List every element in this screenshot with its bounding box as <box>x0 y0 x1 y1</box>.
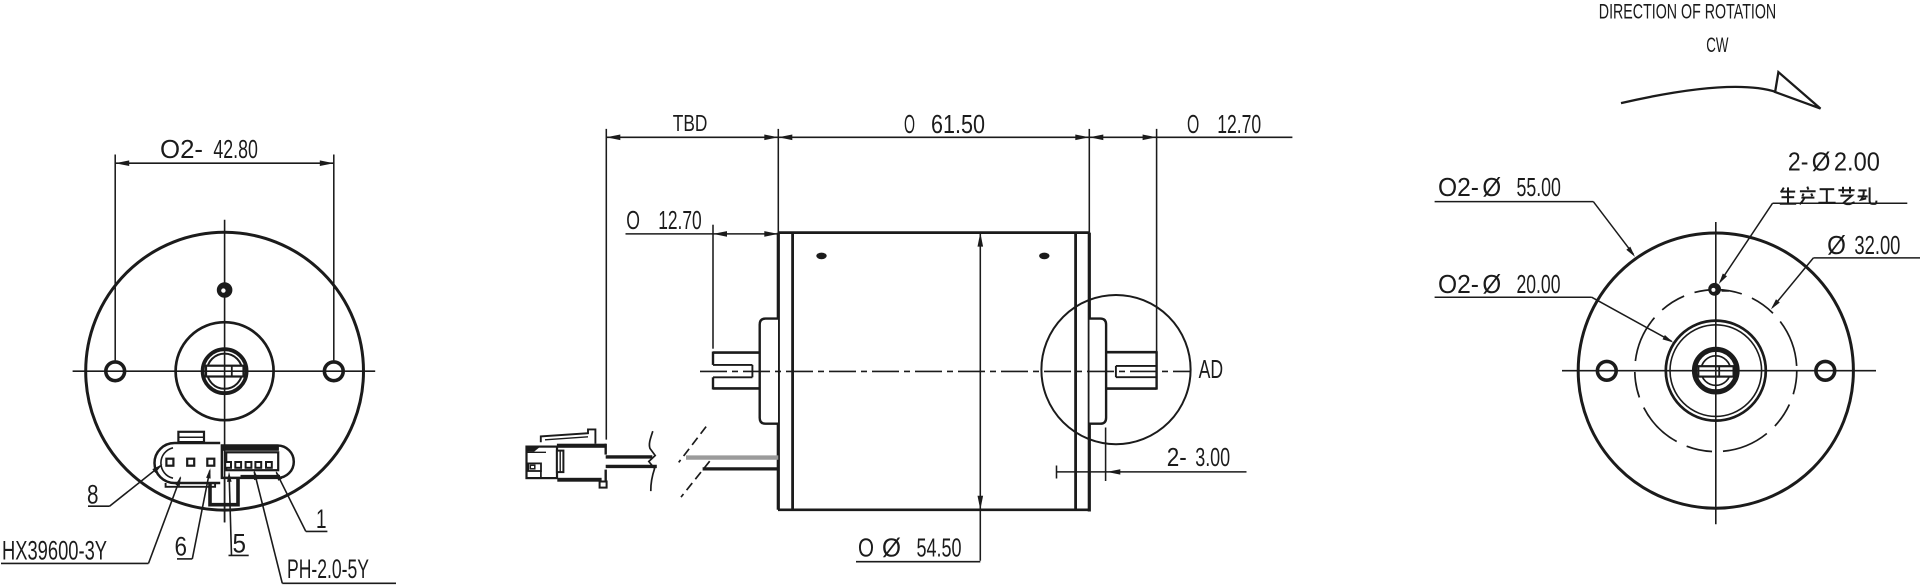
ext line body left <box>777 129 779 233</box>
leader for label 8 <box>88 505 110 507</box>
dim 42.80 extension line left <box>114 155 116 361</box>
motor body top edge <box>778 231 1090 234</box>
left view shaft keyway slot <box>206 366 244 377</box>
leader for PH-2.0-5Y <box>282 582 396 584</box>
left view shaft inner circle <box>207 354 242 389</box>
small plug top inner line <box>527 451 547 453</box>
svg-text:2.00: 2.00 <box>1834 147 1880 177</box>
svg-text:DIRECTION OF ROTATION: DIRECTION OF ROTATION <box>1599 0 1776 24</box>
svg-text:O2-: O2- <box>160 134 203 164</box>
svg-text:2-: 2- <box>1167 442 1187 472</box>
right view mounting hole left <box>1597 361 1616 380</box>
wire gray segment <box>686 455 778 459</box>
housing right edge <box>605 444 607 455</box>
small plug latch wedge <box>527 447 540 452</box>
right view vertical centerline <box>1715 222 1717 524</box>
connector PH pin 1 <box>225 462 231 468</box>
plug latch <box>541 429 596 443</box>
leader for HX39600-3Y <box>1 562 149 564</box>
middle view centerline <box>700 370 1190 372</box>
left view small pilot hole (top) <box>217 282 233 298</box>
left view horizontal centerline <box>73 370 376 372</box>
svg-text:1: 1 <box>316 504 327 534</box>
svg-text:O: O <box>1187 109 1199 139</box>
dim TBD arrows <box>606 135 620 141</box>
svg-text:Ø: Ø <box>1827 230 1846 260</box>
svg-text:5: 5 <box>233 529 247 559</box>
svg-text:61.50: 61.50 <box>931 109 985 139</box>
dim 42.80 arrow right <box>320 160 334 166</box>
left view shaft bearing ring <box>203 349 247 393</box>
left view mounting hole right <box>324 362 343 381</box>
svg-text:O: O <box>904 109 915 139</box>
dim 12.70 arrows <box>1089 135 1103 141</box>
connector HX pin 3 <box>207 459 214 466</box>
connector HX tab <box>178 432 204 442</box>
dim 42.80 arrow left <box>115 160 129 166</box>
connector PH top bar <box>222 445 279 451</box>
break dashed line lower <box>681 461 710 497</box>
connector HX pin 1 <box>166 459 173 466</box>
left end cap face <box>777 233 780 510</box>
connector HX body (3-pin) <box>155 443 221 483</box>
svg-text:Ø: Ø <box>1482 172 1501 202</box>
right view bolt circle (dashed) <box>1635 290 1797 452</box>
svg-text:3.00: 3.00 <box>1195 442 1230 472</box>
connector PH inner housing <box>226 452 278 470</box>
left end cap seam <box>791 233 794 510</box>
break dashed line upper <box>679 427 706 463</box>
connector HX pin 2 <box>187 459 194 466</box>
wire upper <box>606 455 653 458</box>
left view motor outline circle <box>86 232 364 510</box>
connector PH body (5-pin) <box>222 446 294 478</box>
dim 3.00 line <box>1056 471 1247 473</box>
label sheng-chan-gong-yi-kong (Chinese) <box>1781 188 1784 193</box>
leader for label 1 <box>306 530 328 532</box>
leader for label 6 <box>177 558 192 560</box>
svg-text:Ø: Ø <box>1812 147 1831 177</box>
right view mounting hole right <box>1816 361 1835 380</box>
svg-text:20.00: 20.00 <box>1517 269 1561 299</box>
leader 2- dia 2.00 <box>1773 202 1908 204</box>
connector PH pin 5 <box>266 462 272 468</box>
dim 54.50 line <box>979 233 981 561</box>
right view shaft ring <box>1695 349 1738 392</box>
svg-text:6: 6 <box>175 532 188 562</box>
svg-text:54.50: 54.50 <box>917 532 962 562</box>
svg-text:8: 8 <box>87 480 99 510</box>
housing bottom-right square <box>600 482 607 488</box>
leader dia 32 <box>1813 257 1920 259</box>
left shaft outline <box>713 351 760 354</box>
rotation arrow arc <box>1621 87 1776 103</box>
small plug inner line <box>540 471 542 478</box>
process hole <box>1708 283 1721 296</box>
housing bottom bar <box>557 478 601 482</box>
wire lower <box>606 465 657 468</box>
svg-text:O: O <box>626 205 640 235</box>
svg-text:PH-2.0-5Y: PH-2.0-5Y <box>287 554 369 584</box>
ext line TBD left <box>605 129 607 440</box>
left view mounting hole left <box>106 362 125 381</box>
svg-text:Ø: Ø <box>1482 269 1501 299</box>
vent hole left <box>816 253 826 260</box>
wire harness outline <box>210 478 238 505</box>
dim 54.50 underline <box>856 561 980 563</box>
plug collar <box>557 451 564 473</box>
dim 42.80 extension line right <box>333 155 335 361</box>
detail circle AD <box>1041 295 1190 444</box>
right bearing boss <box>1090 319 1107 424</box>
ext line boss right <box>1105 428 1107 482</box>
svg-text:42.80: 42.80 <box>213 134 258 164</box>
left shaft keyway slot <box>713 364 752 366</box>
dim 61.50 arrows <box>778 135 792 141</box>
rotation arrowhead <box>1775 72 1820 109</box>
right view boss circle outer <box>1666 321 1766 421</box>
dim 3.00 arrow <box>1107 469 1121 474</box>
left view centerline over connector <box>224 446 226 523</box>
right view motor outline circle <box>1578 233 1853 508</box>
dim 42.80 dimension line <box>115 162 334 164</box>
connector PH bottom thick edge <box>241 475 281 478</box>
right end cap seam <box>1074 233 1077 510</box>
right shaft keyway slot <box>1116 365 1157 367</box>
svg-text:32.00: 32.00 <box>1854 230 1900 260</box>
svg-text:12.70: 12.70 <box>658 205 702 235</box>
right view horizontal centerline <box>1562 370 1876 372</box>
vent hole right <box>1039 253 1049 260</box>
top dim line <box>606 136 1292 138</box>
leader dia 55 <box>1435 201 1594 203</box>
wire black segment <box>703 467 779 470</box>
svg-text:12.70: 12.70 <box>1217 109 1261 139</box>
svg-text:O: O <box>858 532 874 562</box>
connector PH pin 4 <box>255 462 261 468</box>
dim 12.70 left arrows <box>713 231 727 237</box>
right shaft outline <box>1106 351 1157 354</box>
break zigzag <box>649 431 655 491</box>
small plug inner box <box>528 463 541 471</box>
housing top bar <box>557 444 606 448</box>
ext line left shaft tip <box>712 225 714 349</box>
connector PH pin 2 <box>235 462 241 468</box>
svg-text:O2-: O2- <box>1438 269 1479 299</box>
svg-text:AD: AD <box>1199 354 1224 384</box>
small plug body <box>527 447 558 479</box>
dim 12.70 left shelf <box>626 233 779 235</box>
dim 54.50 arrows <box>978 233 984 247</box>
leader dia 20 <box>1435 296 1592 298</box>
ext line body right <box>1088 129 1090 233</box>
left bearing boss <box>760 319 778 424</box>
svg-text:O2-: O2- <box>1438 172 1479 202</box>
svg-text:TBD: TBD <box>673 110 708 136</box>
svg-text:CW: CW <box>1706 33 1729 57</box>
svg-text:Ø: Ø <box>882 532 901 562</box>
left view vertical centerline <box>224 220 226 523</box>
left view shaft boss circle <box>176 322 274 420</box>
right view shaft inner circle <box>1701 356 1731 386</box>
svg-text:55.00: 55.00 <box>1517 172 1561 202</box>
connector HX inner left arc <box>161 448 173 478</box>
right view boss circle inner <box>1670 325 1762 417</box>
ext line shaft tip <box>1156 129 1158 352</box>
right end cap face <box>1088 233 1091 512</box>
right view keyway slot <box>1698 366 1733 376</box>
leader for label 5 <box>229 554 249 556</box>
svg-text:2-: 2- <box>1788 147 1809 177</box>
svg-text:HX39600-3Y: HX39600-3Y <box>2 536 107 566</box>
motor body bottom edge <box>778 508 1090 511</box>
connector HX bottom step <box>166 483 216 487</box>
connector PH pin 3 <box>246 462 252 468</box>
